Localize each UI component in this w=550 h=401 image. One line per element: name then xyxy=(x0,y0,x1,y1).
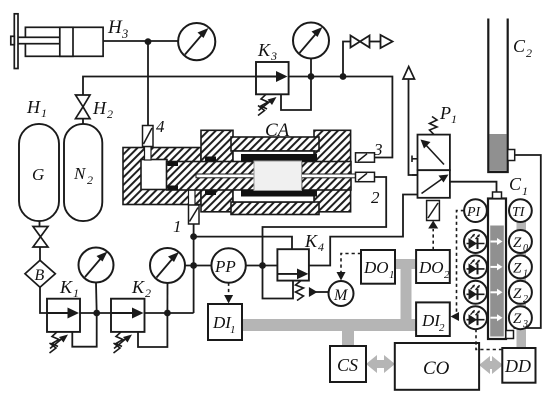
label N2 xyxy=(73,164,93,187)
wire K4 feedback xyxy=(263,266,294,299)
wire pump to port 4 xyxy=(147,41,149,126)
regulator K1 xyxy=(47,299,80,332)
svg-text:G: G xyxy=(32,165,44,184)
svg-text:TI: TI xyxy=(512,205,526,220)
vessel interior xyxy=(233,151,314,202)
motor M xyxy=(329,281,354,306)
bottle H1 (G) xyxy=(19,124,59,221)
svg-text:1: 1 xyxy=(41,106,47,120)
wire gauge4 to PP to K4 xyxy=(185,265,211,267)
dashed control lines xyxy=(229,211,502,350)
wire G bottle to valve xyxy=(39,221,41,226)
wire gauge4 stem xyxy=(166,283,168,313)
label K2 xyxy=(131,277,151,300)
bus DI1-DI2 xyxy=(240,221,526,348)
transducer PP xyxy=(211,248,245,282)
wire valve to B xyxy=(39,247,41,260)
svg-text:H: H xyxy=(26,97,41,117)
wire K4 out to P1 xyxy=(309,195,418,266)
valve K4 xyxy=(277,249,309,280)
box CO xyxy=(395,343,479,390)
box DI1 xyxy=(208,304,242,340)
port1 channel xyxy=(189,190,196,205)
wire vent branch xyxy=(343,42,351,77)
column C1 xyxy=(488,199,506,340)
svg-text:2: 2 xyxy=(523,294,528,305)
port 4 fitting xyxy=(143,126,154,147)
white flow arrows in C1 xyxy=(491,238,503,321)
label H3 xyxy=(107,17,128,41)
level sensors Z0-Z3 xyxy=(509,230,532,329)
svg-text:M: M xyxy=(333,287,349,304)
spring K2 xyxy=(114,332,129,353)
wire pump output xyxy=(103,40,178,42)
platen bottom xyxy=(241,190,317,197)
gauge PG3 xyxy=(79,248,114,283)
svg-text:K: K xyxy=(304,231,318,251)
wire H2 to N2 bottle xyxy=(82,119,84,124)
spring K1 xyxy=(50,332,65,353)
dashed sensors to DD xyxy=(476,329,502,350)
wire gauge2 stem xyxy=(310,59,312,77)
wire vent line P1 xyxy=(409,80,418,176)
svg-text:DO: DO xyxy=(418,258,444,277)
svg-text:1: 1 xyxy=(451,112,457,126)
valve below G xyxy=(33,227,48,248)
vessel right flange xyxy=(314,130,351,212)
column C2 xyxy=(488,19,507,173)
svg-text:2: 2 xyxy=(371,188,380,207)
svg-text:CO: CO xyxy=(423,358,450,379)
wire node1 to K4 top xyxy=(194,237,292,250)
specimen xyxy=(254,161,302,191)
svg-text:3: 3 xyxy=(522,319,528,330)
wire K1 to K2 xyxy=(80,312,111,314)
arrowhead PP-DI1 xyxy=(224,295,233,304)
wire gauge3 stem xyxy=(95,283,98,314)
label C1 xyxy=(509,174,528,198)
arrowhead PI-DI2 xyxy=(451,312,460,321)
svg-text:2: 2 xyxy=(145,286,151,300)
gauge PG1 xyxy=(178,23,215,60)
svg-text:DD: DD xyxy=(504,356,531,376)
C2 outlet nub xyxy=(508,150,515,161)
filter B xyxy=(25,260,55,287)
vent arrow (atmosphere) xyxy=(403,67,415,80)
valve H2 xyxy=(76,95,91,119)
wire K3 feedback xyxy=(281,77,311,111)
svg-text:K: K xyxy=(257,40,271,60)
platen top xyxy=(241,154,317,161)
cylinder assembly CA xyxy=(123,130,351,214)
wire H2 to K3 xyxy=(83,77,256,96)
label K3 xyxy=(257,40,277,63)
svg-text:1: 1 xyxy=(522,184,528,198)
svg-text:1: 1 xyxy=(523,268,528,279)
spring P1 xyxy=(430,117,438,135)
photo sensors column xyxy=(464,230,487,253)
svg-text:N: N xyxy=(73,164,87,183)
box DO1 xyxy=(361,250,395,284)
svg-text:C: C xyxy=(513,36,526,56)
dashed PI to DI2 xyxy=(457,211,465,317)
svg-text:C: C xyxy=(509,174,522,194)
wire K1 feedback xyxy=(72,313,96,347)
svg-text:1: 1 xyxy=(173,217,182,236)
gauge PG4 xyxy=(150,248,185,283)
wire port2 to node xyxy=(263,177,387,266)
svg-text:4: 4 xyxy=(318,240,324,254)
svg-text:2: 2 xyxy=(439,322,445,334)
svg-text:K: K xyxy=(131,277,145,297)
valve P1 xyxy=(418,135,450,198)
label CA xyxy=(265,120,290,141)
sensor PI xyxy=(464,199,487,222)
port4 channel xyxy=(145,147,152,161)
label P1 xyxy=(439,103,457,126)
sensor TI xyxy=(509,199,532,222)
svg-text:1: 1 xyxy=(230,324,236,336)
vessel bottom wall xyxy=(231,202,319,215)
svg-text:Z: Z xyxy=(513,286,522,302)
arrowhead DO1-M xyxy=(337,272,346,281)
svg-text:B: B xyxy=(35,267,45,284)
svg-text:Z: Z xyxy=(513,260,522,276)
bus arrow CO-DD xyxy=(479,356,503,374)
bus arrow CS-CO xyxy=(366,355,395,373)
label K4 xyxy=(304,231,324,254)
svg-text:0: 0 xyxy=(523,243,528,254)
svg-text:1: 1 xyxy=(389,269,395,281)
box DI2 xyxy=(416,302,450,336)
svg-text:Z: Z xyxy=(513,311,522,327)
spring K3 xyxy=(258,94,273,115)
vessel left flange xyxy=(201,130,233,212)
svg-text:DO: DO xyxy=(363,258,389,277)
wire port1 down xyxy=(193,224,195,314)
spring K4 xyxy=(296,281,304,301)
port 1 fitting xyxy=(189,205,200,224)
wire K2 feedback xyxy=(138,313,167,347)
svg-text:2: 2 xyxy=(87,173,93,187)
svg-text:3: 3 xyxy=(121,27,128,41)
port 2 fitting xyxy=(356,172,375,181)
vessel top wall xyxy=(231,137,319,151)
C1 bottom port xyxy=(506,331,514,339)
chamber xyxy=(141,160,167,190)
svg-text:4: 4 xyxy=(156,117,165,136)
wire M to K4 spring xyxy=(314,291,329,293)
dashed DO2 to P1 xyxy=(432,229,434,250)
box DD xyxy=(502,348,535,383)
svg-text:PP: PP xyxy=(214,257,236,276)
label H1 xyxy=(26,97,47,120)
box DO2 xyxy=(416,250,450,283)
shutoff valve + vent nozzle xyxy=(351,35,393,48)
wire C2 to C1 bottom xyxy=(514,155,541,328)
regulator K3 xyxy=(256,62,289,94)
piston rod left xyxy=(167,162,255,191)
svg-text:P: P xyxy=(439,103,451,123)
hand pump H3 xyxy=(11,14,103,69)
regulator K2 xyxy=(111,299,145,332)
svg-text:H: H xyxy=(107,17,123,38)
dashed DO1 to M xyxy=(341,254,361,275)
port 3 fitting xyxy=(356,153,375,162)
svg-text:3: 3 xyxy=(373,140,383,159)
svg-text:Z: Z xyxy=(513,235,522,251)
label H2 xyxy=(92,98,113,121)
label C2 xyxy=(513,36,532,60)
svg-text:H: H xyxy=(92,98,107,118)
svg-text:3: 3 xyxy=(270,49,277,63)
svg-text:K: K xyxy=(59,277,73,297)
wire B to K1 main line xyxy=(40,287,47,313)
gauge PG2 xyxy=(293,23,329,59)
svg-text:CA: CA xyxy=(265,120,290,141)
wire between valve and vent cone xyxy=(370,41,381,43)
bottle N2 xyxy=(64,124,102,221)
svg-text:1: 1 xyxy=(73,286,79,300)
svg-text:2: 2 xyxy=(444,269,450,281)
actuator block left xyxy=(123,148,201,205)
dashed PP to DI1 xyxy=(228,283,230,297)
svg-text:2: 2 xyxy=(526,46,532,60)
wire K2 to port1 riser xyxy=(145,312,194,314)
wire K3 output xyxy=(289,77,393,158)
label K1 xyxy=(59,277,79,300)
svg-text:PI: PI xyxy=(466,205,482,220)
P1 pilot actuator xyxy=(427,201,440,221)
svg-text:2: 2 xyxy=(107,107,113,121)
drainage channel left xyxy=(196,174,255,178)
wire P1 to C1 xyxy=(450,182,497,192)
svg-text:CS: CS xyxy=(337,355,358,375)
C1 cap xyxy=(493,192,502,199)
drainage channel right xyxy=(302,174,356,178)
piston rod right xyxy=(302,162,352,191)
box CS xyxy=(330,346,366,382)
seal marks xyxy=(168,162,179,167)
